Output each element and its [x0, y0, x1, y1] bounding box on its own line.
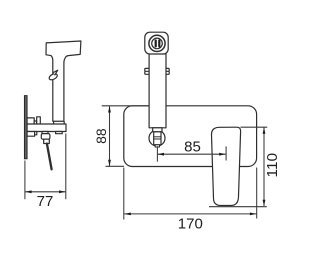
side view: diagonal lever [47, 144, 52, 170]
88 top extension line [102, 105, 149, 107]
front view: knob bar left [155, 39, 157, 47]
side view: lower small rect right [56, 132, 63, 134]
arrow 88 up [108, 106, 111, 112]
side view: wall plate [24, 96, 27, 159]
arrow 170 left [124, 213, 130, 216]
svg-text:77: 77 [37, 193, 54, 210]
side view: top fitting A [27, 118, 34, 125]
dim 88 line [109, 106, 111, 166]
arrow 110 up [263, 127, 266, 133]
side view: stem collar [54, 121, 65, 124]
dim 85 line [158, 153, 226, 155]
arrow 110 down [263, 200, 266, 206]
side view: handle lever hook oval [48, 73, 58, 81]
side view: body bar [27, 124, 66, 132]
svg-text:85: 85 [184, 138, 201, 155]
dim 110 line [263, 127, 265, 206]
dim 170 right extension [256, 168, 258, 219]
dim 77 left extension [24, 161, 26, 200]
front view: left tab [145, 68, 149, 74]
arrow 88 down [108, 160, 111, 166]
front view: escutcheon plate [124, 106, 257, 167]
arrow 170 right [250, 213, 256, 216]
side view: lower-left block [27, 132, 35, 137]
front view: knob bar right [158, 39, 160, 47]
88 bottom extension line [106, 165, 125, 167]
dim 170 left extension [123, 168, 125, 220]
front view: outlet collar [153, 128, 162, 132]
front view: column [149, 54, 166, 128]
front view: diverter knob square [145, 32, 168, 54]
side view: lower connector [35, 132, 37, 135]
side view: valve stem [44, 139, 50, 143]
arrow 85 right [219, 153, 225, 156]
front view: knob outer circle [149, 35, 165, 51]
svg-text:170: 170 [178, 216, 203, 233]
dim 110 bottom extension [209, 206, 267, 208]
front view: knob inner circle [152, 38, 163, 49]
arrow 77 left [25, 190, 31, 193]
front view: outlet tip [155, 145, 159, 147]
dim 85 tick right [225, 146, 227, 160]
front view: outlet face line 1 [154, 136, 161, 138]
side view: valve body [41, 134, 50, 140]
dim 77 right extension [65, 134, 67, 200]
dim 110 top extension [241, 126, 268, 128]
front view: mixer lever [211, 127, 240, 205]
front view: outlet face line 2 [154, 138, 161, 140]
side view: handle hook flag [54, 70, 58, 75]
dim 170 line [124, 213, 256, 215]
arrow 77 right [59, 190, 65, 193]
dim 77 line [25, 191, 65, 193]
side view: valve collar [42, 132, 48, 134]
front view: right tab [166, 68, 169, 74]
side view: top fitting notch [34, 121, 37, 125]
front view: outlet sphere [149, 130, 165, 146]
svg-text:88: 88 [93, 128, 109, 144]
side view: handle T-bar and stem [46, 41, 81, 121]
svg-text:110: 110 [264, 153, 281, 178]
side view: top fitting B [37, 117, 41, 125]
dim 85 center line left [156, 146, 158, 162]
front view: outlet front face [154, 132, 161, 145]
arrow 85 left [158, 153, 164, 156]
